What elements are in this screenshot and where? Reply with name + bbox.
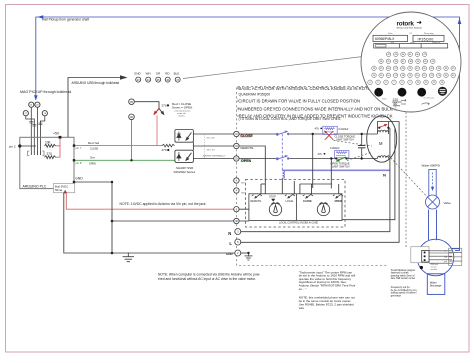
- switch manual direction (red/green): [154, 109, 159, 115]
- svg-text:Valve: Valve: [388, 33, 393, 35]
- motor winding bottom: [378, 156, 389, 158]
- wire close line: [239, 133, 377, 135]
- svg-text:Water 690PSI: Water 690PSI: [422, 164, 441, 168]
- svg-text:module: module: [431, 269, 438, 271]
- relay contact on open line: [278, 156, 287, 159]
- feedthrough capacitor marks: [29, 122, 42, 127]
- terminal 36 local: [234, 218, 239, 223]
- pipe valve to generator: [429, 210, 437, 241]
- actuator gland 2: [398, 88, 407, 97]
- terminal 43 USB wire GND: [134, 72, 142, 83]
- relay contact on close line: [278, 132, 287, 135]
- svg-text:es ...": es ...": [299, 287, 307, 291]
- svg-text:pin 8: pin 8: [76, 161, 82, 165]
- svg-text:47k: 47k: [315, 126, 320, 130]
- arrow USB to bulkhead terminals: [120, 75, 128, 80]
- wire pin21 down to header: [30, 107, 32, 155]
- svg-text:270: 270: [162, 148, 167, 152]
- hall sensor bracket: [411, 247, 429, 263]
- hall sensor wires: [429, 251, 452, 263]
- relay actuation dashed link: [281, 134, 283, 170]
- wire +5V rail (red): [56, 138, 61, 157]
- local control dashed enclosure: [246, 180, 346, 228]
- motor M1: [367, 116, 397, 162]
- svg-text:Green = OPEN: Green = OPEN: [172, 105, 192, 109]
- svg-text:OPEN: OPEN: [89, 163, 96, 166]
- wire pin14 down to header: [40, 116, 44, 155]
- leader line from USB terminals to actuator: [183, 56, 371, 79]
- resistor 270 (arduino): [45, 156, 56, 159]
- svg-text:S202S02 Series: S202S02 Series: [174, 170, 196, 174]
- switch REMOTE: [252, 194, 262, 198]
- connector pin 27 (MAG PICKUP): [23, 111, 28, 116]
- wire pin8 green open: [74, 159, 175, 161]
- svg-text:0.0022uf: 0.0022uf: [330, 147, 340, 150]
- svg-text:ARDUINO PLC: ARDUINO PLC: [23, 185, 47, 189]
- knob selector 1: [269, 203, 281, 216]
- svg-text:2: 2: [401, 90, 404, 96]
- svg-text:Wiring No.: Wiring No.: [432, 42, 441, 44]
- svg-text:36: 36: [130, 115, 133, 119]
- actuator badge: [438, 87, 447, 96]
- ground symbol main: [123, 253, 134, 262]
- terminal 44 USB wire WH: [146, 72, 151, 83]
- wire pin7 red/yellow close: [74, 145, 162, 147]
- svg-text:On off runs: On off runs: [424, 97, 436, 100]
- svg-text:Tach: Tach: [382, 99, 387, 101]
- actuator gland 1: [374, 88, 383, 97]
- terminal 35: [129, 99, 135, 105]
- centrifugal switch (red): [380, 125, 387, 128]
- generator housing circle: [417, 239, 454, 276]
- hall terminal blocks: [449, 248, 462, 265]
- svg-text:wire: wire: [299, 306, 305, 310]
- connector pin 20 (MAG PICKUP): [35, 102, 40, 107]
- wire terminal35 to switch: [135, 102, 159, 109]
- water discharge box: [427, 274, 445, 295]
- svg-text:GND: GND: [75, 177, 83, 181]
- hall sensor body: [422, 250, 429, 262]
- resistor 270 at SSR input: [162, 144, 175, 147]
- svg-text:ered and functional without AC: ered and functional without AC input or …: [158, 277, 256, 281]
- terminal 4 local: [234, 188, 239, 193]
- svg-text:REMOTE: REMOTE: [241, 146, 254, 150]
- svg-text:Use RS485, Belden 8723, 2 pair: Use RS485, Belden 8723, 2 pair shielded: [299, 303, 354, 307]
- svg-text:CLOSE: CLOSE: [241, 134, 254, 138]
- wire SSR open output: [193, 158, 233, 160]
- snubber close (blue): [315, 126, 349, 134]
- svg-text:switch): switch): [178, 114, 185, 117]
- svg-text:¹BASIC ACTUATOR WITH INTEGRAL: ¹BASIC ACTUATOR WITH INTEGRAL CONTROL KN…: [237, 86, 377, 91]
- svg-text:270: 270: [162, 103, 167, 107]
- arrow hall wire up at top-right corner: [458, 18, 462, 24]
- connector pin 14 (MAG PICKUP): [42, 111, 47, 116]
- svg-text:Arduino Sketch "RPM ROTORK Tim: Arduino Sketch "RPM ROTORK Time Puls: [299, 284, 356, 288]
- svg-text:REMOTE: REMOTE: [251, 200, 262, 203]
- capacitor motor run: [358, 146, 366, 148]
- power supply Burl 5VDC 50ma: [54, 184, 75, 193]
- svg-text:Discharge: Discharge: [430, 284, 442, 288]
- wire open to local switch: [330, 159, 332, 185]
- connector pin 21 (MAG PICKUP): [29, 102, 34, 107]
- wire hall-pickup signal (blue loop): [36, 17, 460, 250]
- svg-text:STOP: STOP: [269, 196, 276, 199]
- label GND arduino: [73, 181, 75, 183]
- svg-text:Valve: Valve: [444, 201, 452, 205]
- switch OPEN local: [333, 194, 343, 198]
- spec box: [374, 44, 448, 48]
- wire SSR close output: [193, 133, 233, 135]
- wire switch to red close line: [156, 116, 158, 146]
- svg-text:NOTE: 14VDC applied to Arduino: NOTE: 14VDC applied to Arduino via Vin p…: [120, 202, 206, 206]
- svg-text:CLOSE: CLOSE: [90, 147, 99, 150]
- actuator gland 3: [417, 88, 426, 97]
- SSR U2 (open): [175, 150, 194, 162]
- svg-text:0.0022uf: 0.0022uf: [339, 128, 349, 131]
- wire GND bus bottom: [112, 252, 235, 254]
- node green junction term36: [130, 159, 132, 161]
- svg-text:Wiring diag: Wiring diag: [424, 32, 433, 35]
- wire terminal36 to green line: [131, 120, 133, 160]
- wire pin20 down to header: [36, 107, 38, 155]
- knob selector 2: [317, 203, 329, 216]
- svg-text:GR: GR: [156, 72, 161, 76]
- node +5V junction: [59, 136, 62, 139]
- resistor 10K: [45, 144, 56, 147]
- wire N riser: [241, 128, 390, 232]
- svg-text:M: M: [379, 141, 383, 146]
- arrow hall wire leftward at top-left corner: [37, 15, 43, 19]
- arrow 14VDC into supply: [63, 190, 67, 194]
- svg-text:gnd: gnd: [444, 261, 447, 263]
- wire SSR common/remote: [193, 145, 233, 147]
- svg-text:+5V: +5V: [53, 132, 60, 136]
- mech link actuator stem: [405, 112, 407, 248]
- svg-text:pin 2: pin 2: [9, 144, 16, 148]
- terminal 31: [234, 131, 239, 136]
- svg-text:LIMIT SWITCH: LIMIT SWITCH: [332, 164, 350, 168]
- svg-text:47k: 47k: [318, 152, 323, 156]
- svg-text:sig: sig: [444, 256, 447, 258]
- svg-text:OPEN: OPEN: [241, 159, 252, 163]
- svg-text:Max: Max: [391, 42, 394, 44]
- open torque limit switch (green): [337, 157, 346, 161]
- terminal 36: [129, 114, 135, 120]
- wire GND to terminal 36: [112, 220, 234, 222]
- svg-text:OPEN: OPEN: [335, 200, 342, 203]
- wire open line: [239, 158, 377, 160]
- svg-text:GND: GND: [134, 72, 142, 76]
- svg-text:IP35Q00: IP35Q00: [418, 37, 434, 41]
- svg-text:1: 1: [377, 90, 380, 96]
- pipe inlet: [429, 170, 436, 197]
- svg-text:BLK: BLK: [174, 72, 180, 76]
- mech link torque switches to shaft: [334, 141, 373, 161]
- svg-text:(TO SSRs IN LOCAL CONTROL, AND: (TO SSRs IN LOCAL CONTROL, AND TORQUE LI…: [239, 117, 342, 121]
- actuator terminal grid: [368, 52, 456, 85]
- svg-text:face Hall sensor center: face Hall sensor center: [391, 277, 416, 280]
- svg-text:60: 60: [394, 102, 398, 106]
- svg-text:LOCAL: LOCAL: [286, 200, 295, 203]
- terminal 33: [234, 156, 239, 161]
- local bus wires: [261, 181, 339, 194]
- wire SSR output tie: [192, 142, 194, 150]
- svg-text:Grn: Grn: [90, 156, 95, 160]
- svg-text:Wiring Code Ref: 3000-00: Wiring Code Ref: 3000-00: [397, 27, 423, 30]
- wire L riser: [241, 122, 399, 243]
- ground symbol at GND terminal: [244, 253, 252, 260]
- arrow hall wire down into MAG PICKUP: [34, 95, 38, 100]
- svg-text:QUADRAM IP35Q00: QUADRAM IP35Q00: [239, 92, 271, 96]
- svg-text:WH: WH: [146, 72, 151, 76]
- svg-text:N: N: [383, 173, 386, 178]
- wire pin27 down to header: [26, 116, 35, 155]
- svg-text:60948/P4N-X: 60948/P4N-X: [375, 37, 395, 41]
- wire close to local switch: [312, 134, 314, 184]
- switch LOCAL: [285, 194, 295, 198]
- wire N neutral (blue thick): [282, 169, 390, 171]
- svg-text:+5v: +5v: [444, 251, 447, 253]
- local control inner panel: [249, 194, 342, 221]
- relay coil: [282, 171, 284, 179]
- close torque limit switch (red X): [325, 131, 333, 140]
- terminal 4 local: [234, 178, 239, 183]
- label CLOSE terminal: [240, 134, 252, 138]
- svg-text:35 to 36: 35 to 36: [207, 137, 216, 140]
- wire arduino USB: [68, 78, 124, 138]
- switch CLOSE local: [303, 194, 313, 198]
- terminal stubs into panel: [239, 209, 249, 221]
- svg-text:Hall Pickup from generator sha: Hall Pickup from generator shaft: [42, 18, 89, 22]
- mech link shaft to valve: [388, 155, 432, 202]
- svg-text:MAG PICKUP through bulkhead: MAG PICKUP through bulkhead: [20, 90, 71, 94]
- wire relay to local switch: [281, 178, 283, 193]
- svg-text:CLOSE: CLOSE: [303, 200, 312, 203]
- svg-text:10K: 10K: [45, 140, 52, 144]
- svg-text:generator: generator: [391, 294, 401, 297]
- actuator terminal compartment circle: [361, 12, 461, 112]
- svg-text:Red Yell: Red Yell: [88, 141, 99, 145]
- wire remote line: [239, 146, 265, 194]
- svg-text:L: L: [229, 241, 232, 246]
- snubber open (blue): [318, 147, 349, 158]
- header connector on arduino: [28, 151, 44, 156]
- arduino PLC box: [20, 137, 74, 188]
- svg-text:²CIRCUIT IS DRAWN FOR VALVE IN: ²CIRCUIT IS DRAWN FOR VALVE IN FULLY CLO…: [237, 98, 360, 103]
- svg-text:270: 270: [47, 152, 53, 156]
- valve symbol: [426, 195, 440, 209]
- svg-text:³NUMBERED GREYED CONNECTIONS M: ³NUMBERED GREYED CONNECTIONS MADE INTERN…: [237, 106, 405, 111]
- greyed internal connection marks: [204, 134, 206, 159]
- wire 14VDC Vin (red): [66, 193, 233, 209]
- centrifugal switch loop: [378, 122, 400, 133]
- svg-text:ARDUINO USB through bulkhead: ARDUINO USB through bulkhead: [72, 81, 120, 85]
- wire hall blue tie: [452, 249, 460, 251]
- wire GND riser: [342, 128, 395, 220]
- svg-text:LOCAL CONTROL KNOBS At CASE: LOCAL CONTROL KNOBS At CASE: [279, 221, 318, 224]
- terminal 6 local: [234, 207, 239, 212]
- node pin2: [18, 144, 21, 147]
- motor winding top: [378, 130, 389, 132]
- svg-text:50ma: 50ma: [55, 188, 62, 192]
- dashed bulkhead line: [236, 87, 388, 266]
- terminal 47 USB wire BLK: [174, 72, 181, 83]
- svg-text:rotork: rotork: [397, 20, 415, 27]
- svg-text:3: 3: [420, 90, 423, 96]
- svg-text:pin 7: pin 7: [76, 146, 82, 150]
- svg-text:Lubric: Lubric: [410, 42, 415, 44]
- svg-text:JUMPED INTERNALLY: JUMPED INTERNALLY: [203, 155, 226, 158]
- handwritten settings: [382, 97, 435, 110]
- terminal 46 USB wire RD: [165, 72, 170, 83]
- svg-text:RD: RD: [165, 72, 170, 76]
- svg-text:33 to 34: 33 to 34: [207, 149, 216, 152]
- svg-text:GND: GND: [226, 252, 234, 256]
- terminal 34: [234, 143, 239, 148]
- svg-text:P/L: P/L: [410, 33, 413, 35]
- wire pin2: [20, 145, 36, 147]
- wire burl supply minus: [64, 193, 112, 253]
- magnet on shaft: [420, 266, 423, 269]
- wire arduino GND: [74, 182, 112, 253]
- SSR U1 (close): [175, 130, 194, 143]
- svg-text:35: 35: [130, 100, 133, 104]
- svg-text:N: N: [228, 231, 231, 236]
- label OPEN terminal: [241, 159, 250, 163]
- terminal 45 USB wire GR: [156, 72, 161, 83]
